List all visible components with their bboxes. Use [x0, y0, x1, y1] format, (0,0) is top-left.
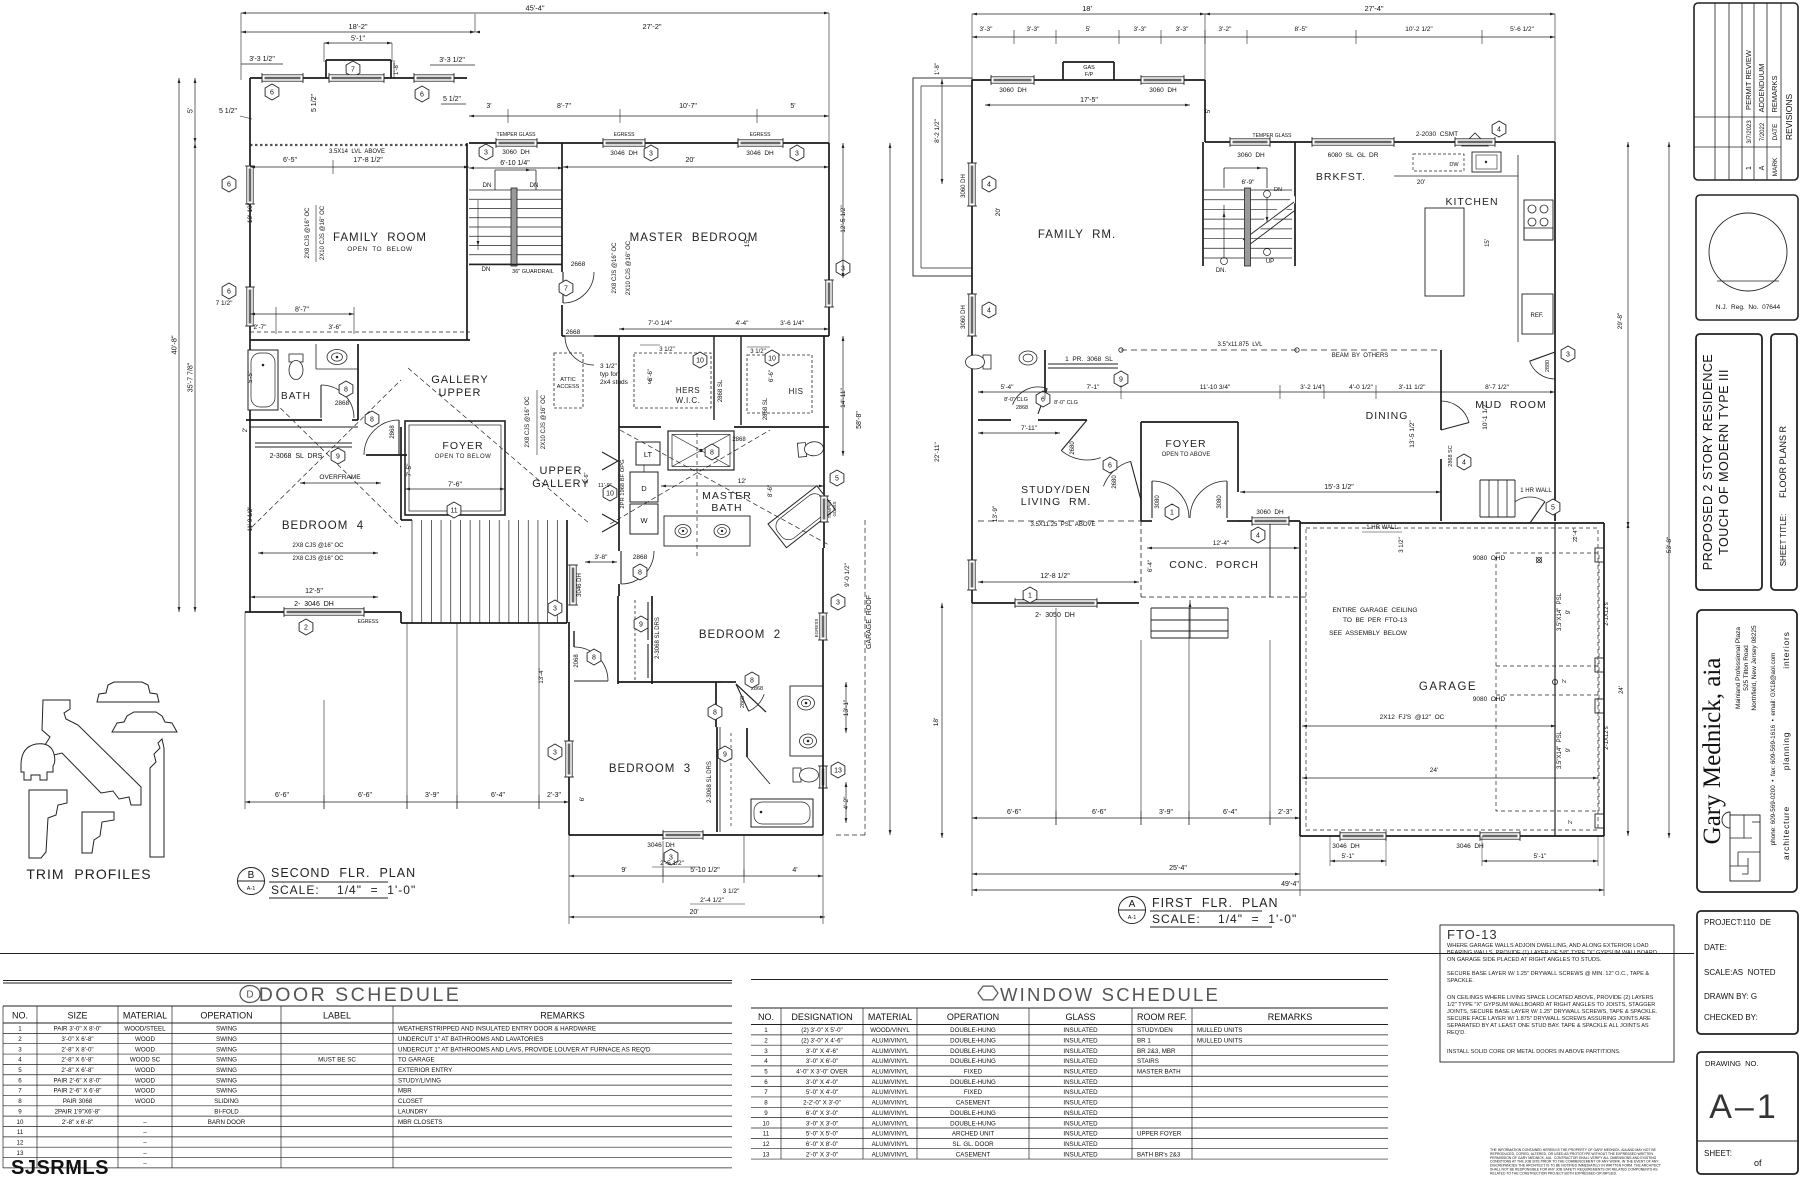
svg-text:3'-0" X 4'-0": 3'-0" X 4'-0"	[806, 1079, 838, 1086]
svg-text:JOINTS, SECURE BASE LAYER W/ 1: JOINTS, SECURE BASE LAYER W/ 1.25" DRYWA…	[1447, 1009, 1658, 1015]
svg-text:2- 3046 DH: 2- 3046 DH	[294, 601, 334, 608]
svg-text:HIS: HIS	[789, 387, 804, 396]
svg-text:GALLERY: GALLERY	[532, 478, 590, 490]
svg-text:8: 8	[750, 678, 754, 685]
svg-text:OPERATION: OPERATION	[200, 1011, 252, 1021]
svg-text:9: 9	[1119, 377, 1123, 384]
hers wic	[618, 336, 620, 548]
svg-text:DOUBLE-HUNG: DOUBLE-HUNG	[950, 1048, 996, 1055]
svg-text:2-2030 CSMT: 2-2030 CSMT	[1416, 131, 1458, 138]
svg-text:20': 20'	[685, 157, 694, 164]
svg-text:3 1/2": 3 1/2"	[723, 888, 740, 895]
svg-text:UNDERCUT 1" AT BATHROOMS AND L: UNDERCUT 1" AT BATHROOMS AND LAVATORIES	[398, 1036, 543, 1043]
window 3046 b3	[663, 832, 703, 838]
svg-text:Mainland Professional Plaza: Mainland Professional Plaza	[1735, 627, 1742, 709]
svg-text:5: 5	[835, 476, 839, 483]
svg-text:6: 6	[1108, 463, 1112, 470]
svg-text:10'-7": 10'-7"	[679, 103, 697, 110]
svg-text:SWING: SWING	[216, 1067, 237, 1074]
svg-text:10: 10	[696, 358, 704, 365]
svg-text:2X12 FJ'S @12" OC: 2X12 FJ'S @12" OC	[1380, 714, 1445, 721]
garage east wall	[1603, 523, 1605, 836]
svg-text:6'-6": 6'-6"	[769, 370, 775, 382]
svg-text:7'-0 1/4": 7'-0 1/4"	[648, 320, 672, 327]
svg-text:ARCHED UNIT: ARCHED UNIT	[952, 1131, 995, 1138]
svg-text:NO.: NO.	[758, 1012, 774, 1022]
svg-text:GALLERY: GALLERY	[431, 374, 489, 386]
svg-text:ADDENDUUM: ADDENDUUM	[1757, 64, 1766, 113]
svg-text:17'-8 1/2": 17'-8 1/2"	[353, 157, 383, 164]
bedroom4 NE door	[366, 454, 407, 456]
svg-text:13'-1": 13'-1"	[843, 699, 850, 716]
svg-text:3.5X11.25 PSL ABOVE: 3.5X11.25 PSL ABOVE	[1030, 522, 1095, 528]
svg-text:2PAIR 1'9"X6'-8": 2PAIR 1'9"X6'-8"	[55, 1108, 101, 1115]
svg-text:3'-2 1/4": 3'-2 1/4"	[1300, 384, 1324, 391]
svg-text:ALUM/VINYL: ALUM/VINYL	[872, 1151, 909, 1158]
svg-text:–: –	[143, 1139, 147, 1146]
svg-text:D: D	[641, 484, 647, 493]
door 2668 gallery	[565, 336, 594, 365]
svg-text:PERMIT REVIEW: PERMIT REVIEW	[1744, 49, 1753, 110]
svg-text:CHECKED BY:: CHECKED BY:	[1704, 1013, 1758, 1022]
interior dims family room	[250, 166, 469, 168]
svg-text:ENTIRE GARAGE CEILING: ENTIRE GARAGE CEILING	[1333, 607, 1418, 614]
svg-text:5'-10 1/2": 5'-10 1/2"	[690, 867, 720, 874]
svg-text:2668: 2668	[571, 261, 586, 268]
svg-text:5'-1": 5'-1"	[1534, 853, 1548, 860]
svg-text:planning: planning	[1781, 732, 1791, 771]
svg-text:MATERIAL: MATERIAL	[868, 1012, 912, 1022]
svg-text:8'-0" CLG: 8'-0" CLG	[1054, 400, 1078, 406]
svg-text:2'-8" X 6'-8": 2'-8" X 6'-8"	[61, 1057, 93, 1064]
svg-text:525 Tilton Road: 525 Tilton Road	[1743, 645, 1750, 691]
svg-text:11: 11	[450, 508, 457, 515]
svg-text:1 HR WALL: 1 HR WALL	[1520, 488, 1552, 494]
left wall	[971, 80, 973, 603]
svg-text:4: 4	[987, 308, 991, 315]
svg-text:12'-4": 12'-4"	[1213, 540, 1230, 547]
window study west	[969, 560, 975, 590]
temper glass right	[830, 470, 844, 486]
svg-text:BATH: BATH	[711, 502, 742, 514]
svg-text:9: 9	[723, 752, 727, 759]
porch	[1140, 521, 1142, 597]
svg-text:BARN DOOR: BARN DOOR	[208, 1119, 246, 1126]
svg-text:KITCHEN: KITCHEN	[1445, 196, 1498, 208]
svg-text:2'-7": 2'-7"	[254, 324, 268, 331]
dining east wall	[1440, 350, 1442, 430]
svg-text:3: 3	[836, 600, 840, 607]
svg-text:8'-7 1/2": 8'-7 1/2"	[1485, 384, 1509, 391]
svg-text:7: 7	[351, 67, 355, 74]
svg-text:8: 8	[370, 417, 374, 424]
powder door	[1013, 387, 1048, 405]
svg-text:DW: DW	[1449, 162, 1459, 168]
svg-text:2-3068 SL DRS: 2-3068 SL DRS	[270, 453, 323, 460]
architect logo	[1730, 815, 1760, 881]
door 2868 diag	[736, 684, 766, 712]
bottom-left dims	[972, 817, 1300, 819]
bottom dims left plan	[245, 801, 569, 803]
svg-text:6'-6": 6'-6"	[358, 792, 372, 799]
svg-text:MBR: MBR	[398, 1088, 412, 1095]
svg-text:9: 9	[18, 1108, 22, 1115]
svg-text:SCALE: 1/4" = 1'-0": SCALE: 1/4" = 1'-0"	[271, 883, 416, 897]
powder wc	[966, 355, 992, 369]
right overall dims	[889, 143, 891, 835]
svg-text:OPEN TO BELOW: OPEN TO BELOW	[347, 246, 413, 253]
window 3060 DH temper	[496, 140, 537, 146]
svg-text:20': 20'	[1417, 179, 1425, 186]
svg-text:3060 DH: 3060 DH	[961, 174, 967, 198]
svg-text:FIXED: FIXED	[964, 1069, 983, 1076]
svg-text:A: A	[1759, 165, 1766, 170]
svg-text:INSULATED: INSULATED	[1063, 1079, 1098, 1086]
upper cabs dashed	[1413, 154, 1464, 171]
svg-text:SWING: SWING	[216, 1046, 237, 1053]
svg-text:2': 2'	[243, 428, 249, 432]
trim profiles group	[21, 682, 177, 858]
svg-text:3'-6": 3'-6"	[329, 324, 343, 331]
svg-text:5': 5'	[1206, 109, 1212, 113]
svg-text:40'-8": 40'-8"	[170, 335, 179, 354]
svg-text:SPACKLE.: SPACKLE.	[1447, 978, 1474, 984]
svg-text:2'-3": 2'-3"	[547, 792, 561, 799]
mbath wc	[797, 441, 824, 457]
svg-text:DRAWING NO.: DRAWING NO.	[1705, 1059, 1758, 1068]
svg-text:ALUM/VINYL: ALUM/VINYL	[872, 1100, 909, 1107]
svg-text:2-1X12's: 2-1X12's	[1604, 726, 1610, 750]
svg-text:ALUM/VINYL: ALUM/VINYL	[872, 1058, 909, 1065]
svg-text:WEATHERSTRIPPED AND INSULATED: WEATHERSTRIPPED AND INSULATED ENTRY DOOR…	[398, 1026, 596, 1033]
svg-text:DN: DN	[1274, 187, 1282, 193]
svg-text:WOOD: WOOD	[135, 1067, 155, 1074]
svg-text:DOUBLE-HUNG: DOUBLE-HUNG	[950, 1079, 996, 1086]
svg-text:3080: 3080	[1155, 495, 1161, 509]
svg-text:8: 8	[710, 450, 714, 457]
svg-text:5'-5": 5'-5"	[248, 371, 254, 383]
svg-text:SECOND FLR. PLAN: SECOND FLR. PLAN	[271, 866, 416, 880]
svg-text:9080 OHD: 9080 OHD	[1473, 555, 1506, 562]
window 3046 stair	[570, 565, 576, 605]
svg-text:(2) 3'-0" X 4'-6": (2) 3'-0" X 4'-6"	[801, 1037, 843, 1044]
svg-text:2: 2	[764, 1037, 768, 1044]
svg-text:6'-10 1/4": 6'-10 1/4"	[500, 160, 530, 167]
right top wall y143	[469, 142, 829, 144]
door 2868 sc	[1441, 401, 1469, 423]
svg-text:5': 5'	[188, 108, 195, 113]
svg-text:BEDROOM 2: BEDROOM 2	[699, 629, 781, 641]
mbath sink1	[675, 525, 691, 538]
svg-text:ATTIC: ATTIC	[560, 377, 576, 383]
svg-text:INSULATED: INSULATED	[1063, 1089, 1098, 1096]
svg-text:FTO-13: FTO-13	[1447, 927, 1498, 942]
svg-text:DOUBLE-HUNG: DOUBLE-HUNG	[950, 1120, 996, 1127]
svg-text:9080 OHD: 9080 OHD	[1473, 696, 1506, 703]
hex 7 bump window	[346, 61, 360, 77]
svg-text:2-1X12's: 2-1X12's	[1604, 602, 1610, 626]
wing west wall	[568, 622, 570, 835]
revisions table	[1694, 3, 1798, 180]
svg-text:REMARKS: REMARKS	[1268, 1012, 1313, 1022]
svg-text:INSULATED: INSULATED	[1063, 1027, 1098, 1034]
svg-text:8'-7": 8'-7"	[295, 307, 309, 314]
LVL dashed	[250, 144, 467, 146]
svg-text:SCALE:AS NOTED: SCALE:AS NOTED	[1704, 968, 1776, 977]
svg-text:3.5"x11.875 LVL: 3.5"x11.875 LVL	[1218, 342, 1264, 348]
svg-text:3060 DH: 3060 DH	[999, 87, 1027, 94]
svg-text:2x4 studs: 2x4 studs	[600, 379, 629, 386]
svg-text:17'-5": 17'-5"	[1080, 97, 1098, 104]
range	[1524, 200, 1553, 240]
window 3060	[1230, 139, 1270, 145]
svg-text:WOOD: WOOD	[135, 1046, 155, 1053]
svg-text:BR 2&3, MBR: BR 2&3, MBR	[1137, 1048, 1176, 1055]
svg-text:3'-3": 3'-3"	[980, 26, 994, 33]
window left 1	[247, 166, 253, 204]
svg-text:2880: 2880	[1545, 360, 1551, 372]
svg-text:3'-2": 3'-2"	[1219, 26, 1233, 33]
window right mbr	[826, 280, 832, 307]
svg-text:4'-2": 4'-2"	[843, 796, 850, 810]
b2 closet	[617, 596, 619, 684]
svg-text:SJSRMLS: SJSRMLS	[11, 1157, 109, 1177]
svg-text:5': 5'	[790, 103, 795, 110]
svg-text:INSULATED: INSULATED	[1063, 1141, 1098, 1148]
bath2 wc	[793, 768, 819, 782]
svg-text:3': 3'	[648, 380, 652, 386]
svg-text:58'-8": 58'-8"	[856, 411, 863, 429]
svg-text:SWING: SWING	[216, 1077, 237, 1084]
svg-text:3060 DH: 3060 DH	[1256, 509, 1284, 516]
architect seal box	[1696, 195, 1798, 320]
svg-text:12: 12	[17, 1139, 24, 1146]
svg-text:6'-9": 6'-9"	[1242, 179, 1256, 186]
svg-text:ALUM/VINYL: ALUM/VINYL	[872, 1037, 909, 1044]
left outer dims	[194, 78, 196, 143]
svg-text:2- 3050 DH: 2- 3050 DH	[1035, 612, 1075, 619]
svg-text:1/2" TYPE "X" GYPSUM WALLBOARD: 1/2" TYPE "X" GYPSUM WALLBOARD AT RIGHT …	[1447, 1002, 1655, 1008]
svg-text:3060 DH: 3060 DH	[1237, 152, 1265, 159]
svg-text:2068: 2068	[574, 654, 580, 668]
svg-text:SECURE FACE LAYER W/ 1.875" DR: SECURE FACE LAYER W/ 1.875" DRYWALL SCRE…	[1447, 1016, 1651, 1022]
laundry LT D W	[636, 442, 660, 465]
dim 45-4 overall top	[241, 12, 829, 14]
svg-text:6: 6	[18, 1077, 22, 1084]
door 2668 mbr	[563, 272, 594, 303]
stairwell east wall	[1294, 142, 1296, 266]
svg-text:INSULATED: INSULATED	[1063, 1110, 1098, 1117]
svg-text:3'-3 1/2": 3'-3 1/2"	[249, 56, 275, 63]
svg-text:3 1/2": 3 1/2"	[659, 347, 674, 353]
svg-text:8: 8	[344, 387, 348, 394]
svg-text:4: 4	[1462, 460, 1466, 467]
svg-text:OVERFRAME: OVERFRAME	[319, 474, 361, 481]
master bath	[619, 426, 661, 428]
svg-text:8: 8	[592, 655, 596, 662]
svg-text:7'-6": 7'-6"	[448, 482, 462, 489]
mudroom stairs	[1480, 479, 1515, 481]
svg-text:DOUBLE-HUNG: DOUBLE-HUNG	[950, 1058, 996, 1065]
svg-text:2PR 1968 BF OPG: 2PR 1968 BF OPG	[620, 459, 626, 509]
svg-text:BRKFST.: BRKFST.	[1316, 171, 1366, 183]
svg-text:3.5"X14" PSL: 3.5"X14" PSL	[1557, 730, 1563, 769]
svg-text:BEAM BY OTHERS: BEAM BY OTHERS	[1332, 353, 1389, 359]
csmt window symbol	[1462, 133, 1488, 146]
svg-text:3080: 3080	[1217, 495, 1223, 509]
window 3046	[1340, 833, 1386, 839]
svg-text:OPEN TO ABOVE: OPEN TO ABOVE	[1162, 452, 1211, 458]
door 2680 upper	[1061, 451, 1100, 460]
svg-text:DOUBLE-HUNG: DOUBLE-HUNG	[950, 1037, 996, 1044]
svg-text:10: 10	[17, 1119, 24, 1126]
svg-text:3060 DH: 3060 DH	[502, 149, 530, 156]
svg-text:10'-1 1/2": 10'-1 1/2"	[1482, 402, 1489, 430]
svg-text:WOOD/STEEL: WOOD/STEEL	[124, 1026, 166, 1033]
svg-text:GARAGE ROOF: GARAGE ROOF	[866, 595, 873, 649]
svg-text:4'-0" X 3'-0" OVER: 4'-0" X 3'-0" OVER	[796, 1069, 848, 1076]
svg-text:typ for: typ for	[600, 371, 619, 378]
svg-text:FIRST FLR. PLAN: FIRST FLR. PLAN	[1152, 896, 1279, 910]
svg-text:CASEMENT: CASEMENT	[956, 1100, 991, 1107]
svg-text:–: –	[143, 1129, 147, 1136]
svg-text:15'-3 1/2": 15'-3 1/2"	[1324, 484, 1354, 491]
svg-text:3'-3": 3'-3"	[1176, 26, 1190, 33]
window b2 egress	[820, 613, 826, 640]
svg-text:ON CEILINGS WHERE LIVING SPACE: ON CEILINGS WHERE LIVING SPACE LOCATED A…	[1447, 995, 1654, 1001]
diagonal door bath2	[722, 681, 736, 683]
svg-text:INSULATED: INSULATED	[1063, 1048, 1098, 1055]
window 3060 fam1	[969, 163, 975, 206]
svg-text:–: –	[143, 1160, 147, 1167]
svg-text:FOYER: FOYER	[442, 440, 483, 452]
svg-text:20': 20'	[689, 909, 698, 916]
svg-text:6080 SL GL DR: 6080 SL GL DR	[1328, 152, 1379, 159]
counter edge	[1517, 155, 1519, 342]
family rm north wall	[972, 79, 1205, 81]
bath2 tub	[751, 799, 813, 827]
svg-text:2868: 2868	[633, 554, 648, 561]
svg-text:RELATED TO THE CONSTRUCTION PR: RELATED TO THE CONSTRUCTION PROJECT BOTH…	[1490, 1171, 1617, 1175]
svg-text:2680: 2680	[1112, 475, 1118, 489]
svg-text:12'-5": 12'-5"	[305, 588, 323, 595]
svg-text:29'-8": 29'-8"	[1617, 312, 1624, 329]
svg-text:FIXED: FIXED	[964, 1089, 983, 1096]
svg-text:WOOD: WOOD	[135, 1098, 155, 1105]
svg-text:5 1/2": 5 1/2"	[219, 108, 238, 115]
svg-text:8'-2 1/2": 8'-2 1/2"	[934, 118, 941, 142]
psl dashed box	[1496, 553, 1599, 811]
svg-text:5: 5	[764, 1069, 768, 1076]
svg-text:MULLED UNITS: MULLED UNITS	[1197, 1037, 1242, 1044]
svg-text:6'-6": 6'-6"	[1007, 809, 1021, 816]
svg-text:25'-4": 25'-4"	[1169, 865, 1187, 872]
door schedule table	[3, 980, 732, 982]
svg-text:ROOM REF.: ROOM REF.	[1137, 1012, 1187, 1022]
svg-text:A–1: A–1	[1709, 1088, 1779, 1126]
project info box	[1697, 911, 1798, 1034]
door 2868 b2	[621, 551, 654, 584]
main stair flight	[411, 520, 413, 623]
svg-text:2868 SL: 2868 SL	[763, 397, 769, 420]
svg-text:2'-8" x 6'-8": 2'-8" x 6'-8"	[62, 1119, 93, 1126]
diagonal dashed ceiling lines	[252, 380, 401, 527]
svg-text:13'-4": 13'-4"	[539, 668, 545, 683]
svg-text:ACCESS: ACCESS	[557, 384, 580, 390]
svg-text:2X8 CJS @16" OC: 2X8 CJS @16" OC	[293, 543, 345, 549]
svg-text:TO GARAGE: TO GARAGE	[398, 1057, 435, 1064]
svg-text:3046 DH: 3046 DH	[1456, 843, 1484, 850]
hall wall below stairs	[573, 631, 575, 647]
svg-text:DOUBLE-HUNG: DOUBLE-HUNG	[950, 1110, 996, 1117]
foyer	[1141, 421, 1238, 423]
svg-text:11'-9": 11'-9"	[598, 483, 612, 489]
svg-text:A-1: A-1	[247, 886, 256, 892]
svg-text:3'-0" X 4'-6": 3'-0" X 4'-6"	[806, 1048, 838, 1055]
east wall	[1554, 142, 1556, 521]
svg-text:INSULATED: INSULATED	[1063, 1120, 1098, 1127]
svg-text:45'-4": 45'-4"	[525, 4, 544, 13]
study south wall	[972, 602, 1139, 604]
svg-text:CONC. PORCH: CONC. PORCH	[1169, 559, 1259, 571]
svg-text:9: 9	[764, 1110, 768, 1117]
svg-text:2868 SL: 2868 SL	[718, 379, 724, 402]
shower	[668, 431, 734, 470]
svg-text:architecture: architecture	[1781, 806, 1791, 860]
window 3060 fam2	[969, 294, 975, 336]
svg-text:1: 1	[764, 1027, 768, 1034]
svg-text:phone: 609-569-0200 • fax: 6: phone: 609-569-0200 • fax: 609-569-1616 …	[1770, 653, 1777, 846]
dim 18-2 / 27-2	[241, 31, 475, 33]
svg-text:3.5X14 LVL ABOVE: 3.5X14 LVL ABOVE	[329, 149, 385, 155]
svg-text:3: 3	[795, 151, 799, 158]
svg-text:10'-2 1/2": 10'-2 1/2"	[1405, 26, 1433, 33]
svg-text:3/7/2023: 3/7/2023	[1747, 120, 1753, 144]
svg-text:TOUCH OF MODERN TYPE III: TOUCH OF MODERN TYPE III	[1717, 369, 1731, 555]
svg-text:4: 4	[1256, 533, 1260, 540]
svg-text:EGRESS: EGRESS	[358, 619, 380, 625]
svg-text:TEMPER GLASS: TEMPER GLASS	[497, 132, 537, 138]
svg-text:8: 8	[713, 710, 717, 717]
svg-text:5'-1": 5'-1"	[1342, 853, 1356, 860]
svg-text:N.J. Reg. No. 07644: N.J. Reg. No. 07644	[1716, 304, 1781, 311]
svg-text:BEDROOM 3: BEDROOM 3	[609, 763, 691, 775]
svg-text:3: 3	[18, 1046, 22, 1053]
svg-text:SWING: SWING	[216, 1057, 237, 1064]
wall right of foyer	[1238, 520, 1300, 522]
svg-text:27'-2": 27'-2"	[642, 22, 661, 31]
svg-text:LT: LT	[644, 450, 653, 459]
svg-text:WINDOW SCHEDULE: WINDOW SCHEDULE	[1000, 984, 1220, 1005]
svg-text:6'-4": 6'-4"	[491, 792, 505, 799]
svg-text:3'-0" X 6'-8": 3'-0" X 6'-8"	[61, 1036, 93, 1043]
svg-text:3: 3	[553, 606, 557, 613]
svg-text:MARK: MARK	[1772, 157, 1779, 176]
svg-text:FOYER: FOYER	[1165, 438, 1206, 450]
svg-text:SWING: SWING	[216, 1036, 237, 1043]
svg-text:7'-11": 7'-11"	[1021, 425, 1038, 432]
svg-text:3: 3	[553, 750, 557, 757]
mbr west wall	[561, 143, 563, 272]
svg-text:6'-0" X 3'-0": 6'-0" X 3'-0"	[806, 1110, 838, 1117]
svg-text:UPPER FOYER: UPPER FOYER	[1137, 1131, 1182, 1138]
svg-text:7'-1": 7'-1"	[1087, 384, 1101, 391]
powder sink	[1019, 351, 1037, 365]
svg-text:FAMILY ROOM: FAMILY ROOM	[333, 232, 427, 244]
door 2868 bedroom4	[364, 420, 399, 455]
architect info box: Gary Mednick	[1697, 610, 1797, 892]
svg-text:1 PR. 3068 SL: 1 PR. 3068 SL	[1065, 356, 1113, 363]
